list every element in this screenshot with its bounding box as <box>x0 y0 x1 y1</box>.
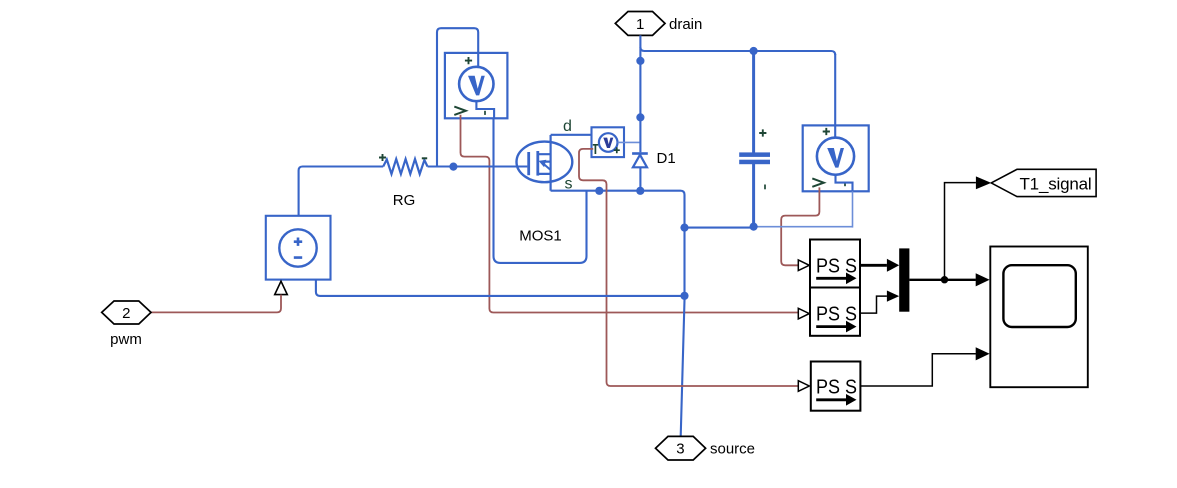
wire: source + lead up to RG rail <box>299 167 384 216</box>
wire: capacitor bottom lead <box>752 164 755 227</box>
arrowhead scope input 1 <box>976 273 990 286</box>
arrowhead into T1_signal <box>976 176 991 189</box>
svg-text:pwm: pwm <box>110 331 142 348</box>
transistor MOS1 (N-channel MOSFET) <box>517 142 573 183</box>
wire: drain vertical (hexagon 1 down to diode) <box>639 35 641 152</box>
node: junction dot source vertical / long bus <box>680 292 688 300</box>
diode D1 <box>632 152 648 167</box>
node: junction dot above diode <box>636 113 644 121</box>
wire: capacitor top lead <box>752 51 755 153</box>
wire: PS signal U1 > to PS-S converter 2 <box>461 115 799 313</box>
wire: gate rail RG to MOSFET gate <box>428 165 528 167</box>
voltmeter U1 (gate-source voltage sensor) <box>445 53 508 118</box>
wire: sensor U2 right to diode branch <box>618 141 640 143</box>
control input triangle of source block <box>275 281 288 294</box>
node: junction dot bottom bus left <box>680 224 688 232</box>
node: junction dot below drain corner <box>636 57 644 65</box>
PS-S converter 1 <box>798 240 860 288</box>
label RG - <box>422 157 427 159</box>
node: junction dot gate rail <box>449 163 457 171</box>
arrowhead scope input 2 <box>976 347 990 360</box>
capacitor C1 <box>739 152 770 164</box>
wire: bottom bus y=227 <box>685 227 754 229</box>
node: junction dot capacitor top branch <box>750 47 758 55</box>
wire: sensor U3 bottom vertical to bus <box>852 191 854 227</box>
svg-text:MOS1: MOS1 <box>519 228 562 245</box>
label capacitor - <box>764 185 766 190</box>
port 1 (drain) hexagon <box>615 12 665 36</box>
port 3 (source) hexagon <box>656 436 706 460</box>
wire: source bus (s lead to hexagon 3) <box>551 191 685 437</box>
goto tag T1_signal <box>991 169 1096 196</box>
label RG + <box>379 154 386 161</box>
wire: PS-S 3 output to scope input 2 <box>860 354 976 386</box>
wire: sensor U3 top lead <box>834 54 836 138</box>
svg-text:1: 1 <box>636 16 644 33</box>
wire: mux output to scope <box>909 279 976 281</box>
PS-S converter 2 <box>798 288 860 336</box>
ammeter/voltmeter U2 (small drain sensor) <box>592 127 625 157</box>
svg-text:d: d <box>563 118 572 135</box>
node: junction dot s bus left <box>595 187 603 195</box>
port 2 (pwm) hexagon <box>102 301 151 324</box>
svg-text:D1: D1 <box>657 150 676 167</box>
wire: branch to T1_signal goto tag <box>945 183 976 280</box>
wire: MOSFET drain lead to current sensor <box>551 135 599 191</box>
svg-text:source: source <box>710 441 755 458</box>
wire: PS-S 2 output to mux <box>860 296 887 313</box>
svg-text:3: 3 <box>676 441 684 458</box>
label capacitor + <box>759 129 766 136</box>
resistor RG <box>383 159 427 174</box>
svg-text:2: 2 <box>122 305 130 322</box>
wire: sensor U1 - routing loop under MOS1 to source <box>494 118 587 263</box>
scope <box>990 247 1088 388</box>
wire: sensor U3 - terminal step <box>836 175 853 191</box>
voltmeter U3 (drain-source voltage sensor) <box>803 125 869 191</box>
wire: sensor U1 + lead loop to gate node <box>437 28 478 166</box>
node: junction dot capacitor bottom <box>750 223 758 231</box>
wire: PS-S 1 output to mux (thick) <box>860 264 887 267</box>
voltage source block (controlled voltage source) <box>266 216 331 280</box>
svg-text:T1_signal: T1_signal <box>1020 175 1092 194</box>
svg-text:PS S: PS S <box>816 304 857 326</box>
wire: PS signal U2 to PS-S converter 3 <box>579 149 798 386</box>
wire: diode bottom lead <box>639 167 641 191</box>
wire: long bus from source block bottom <box>316 280 685 296</box>
wire: pwm signal to source control input <box>151 295 281 313</box>
node: junction dot mux output <box>941 276 948 283</box>
mux <box>899 248 909 311</box>
wire: PS signal U3 > to PS-S converter 1 <box>781 187 819 265</box>
svg-text:RG: RG <box>393 192 416 209</box>
svg-text:drain: drain <box>669 16 702 33</box>
wire: top bus y=50 <box>640 47 835 55</box>
svg-text:PS S: PS S <box>816 377 857 399</box>
PS-S converter 3 <box>798 362 860 411</box>
svg-text:PS S: PS S <box>816 255 857 277</box>
wire: sensor U1 - terminal step <box>476 101 494 118</box>
node: junction dot s bus diode <box>636 187 644 195</box>
